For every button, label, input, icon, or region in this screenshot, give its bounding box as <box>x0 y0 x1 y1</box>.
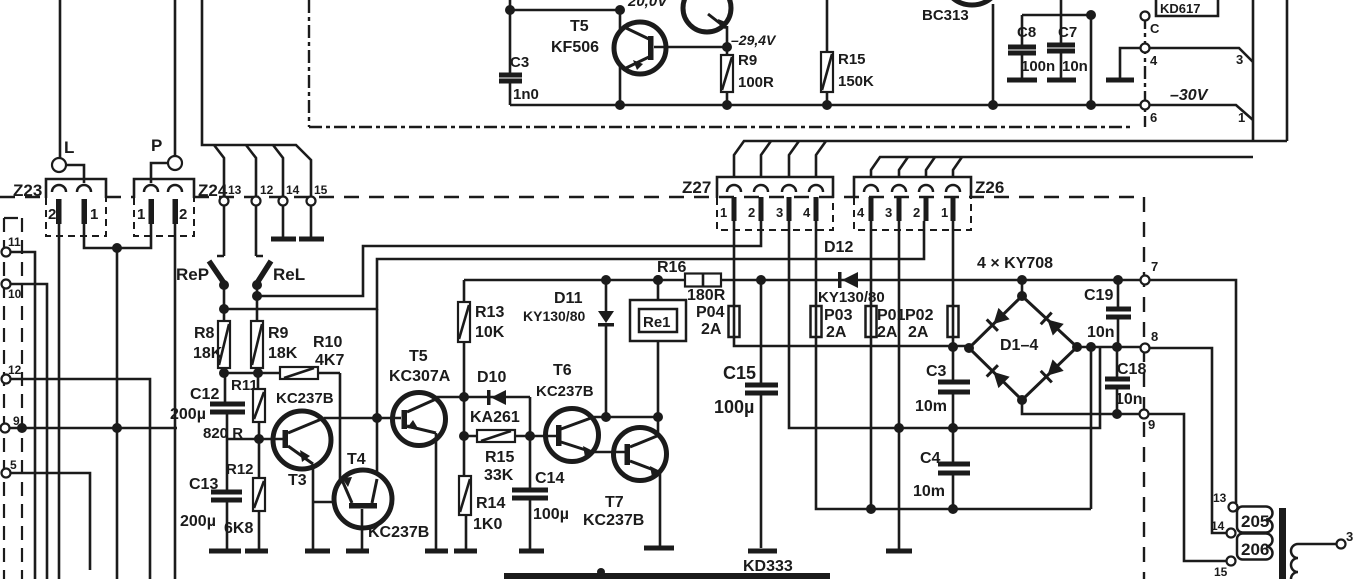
svg-text:4K7: 4K7 <box>315 352 344 369</box>
svg-text:T6: T6 <box>553 362 572 379</box>
svg-text:3: 3 <box>885 205 892 220</box>
svg-text:C18: C18 <box>1117 361 1146 378</box>
svg-text:20,0V: 20,0V <box>627 0 669 10</box>
svg-text:C14: C14 <box>535 470 564 487</box>
svg-text:KD617: KD617 <box>1160 1 1200 16</box>
svg-text:18K: 18K <box>193 345 223 362</box>
svg-text:P: P <box>151 136 162 155</box>
svg-text:D10: D10 <box>477 369 506 386</box>
svg-text:R13: R13 <box>475 304 504 321</box>
svg-text:2: 2 <box>179 206 187 223</box>
svg-text:KC307A: KC307A <box>389 368 451 385</box>
svg-text:1: 1 <box>941 205 948 220</box>
svg-text:150K: 150K <box>838 73 874 90</box>
svg-text:3: 3 <box>1346 529 1353 544</box>
svg-text:D12: D12 <box>824 239 853 256</box>
svg-text:–30V: –30V <box>1170 87 1209 104</box>
svg-text:4 × KY708: 4 × KY708 <box>977 255 1053 272</box>
svg-text:D11: D11 <box>554 290 583 307</box>
svg-text:R8: R8 <box>194 325 215 342</box>
svg-text:180R: 180R <box>687 287 726 304</box>
svg-text:4: 4 <box>857 205 865 220</box>
svg-text:14: 14 <box>1211 519 1225 533</box>
svg-text:D1–4: D1–4 <box>1000 337 1038 354</box>
svg-text:C7: C7 <box>1058 24 1077 41</box>
svg-text:11: 11 <box>8 235 21 249</box>
svg-text:KC237B: KC237B <box>536 383 594 400</box>
svg-text:–29,4V: –29,4V <box>731 32 777 48</box>
svg-text:C4: C4 <box>920 450 941 467</box>
svg-text:206: 206 <box>1241 540 1269 559</box>
svg-text:Z27: Z27 <box>682 178 711 197</box>
svg-text:R9: R9 <box>738 52 757 69</box>
svg-text:C13: C13 <box>189 476 218 493</box>
svg-text:L: L <box>64 138 74 157</box>
svg-text:KA261: KA261 <box>470 409 520 426</box>
svg-text:18K: 18K <box>268 345 298 362</box>
svg-text:200µ: 200µ <box>180 513 216 530</box>
svg-text:KC237B: KC237B <box>583 512 644 529</box>
svg-text:10n: 10n <box>1115 391 1143 408</box>
svg-text:T5: T5 <box>570 18 589 35</box>
svg-text:2: 2 <box>748 205 755 220</box>
svg-text:KC237B: KC237B <box>368 524 429 541</box>
svg-text:205: 205 <box>1241 512 1269 531</box>
svg-text:C3: C3 <box>926 363 947 380</box>
svg-text:6K8: 6K8 <box>224 520 253 537</box>
svg-text:10m: 10m <box>915 398 947 415</box>
svg-text:C15: C15 <box>723 363 756 383</box>
svg-text:100µ: 100µ <box>714 397 754 417</box>
svg-text:4: 4 <box>1150 53 1158 68</box>
svg-text:15: 15 <box>314 183 328 197</box>
svg-text:C: C <box>1150 21 1160 36</box>
svg-text:200µ: 200µ <box>170 406 206 423</box>
svg-text:1: 1 <box>90 206 98 223</box>
svg-text:T5: T5 <box>409 348 428 365</box>
svg-text:R12: R12 <box>226 461 254 478</box>
svg-text:6: 6 <box>1150 110 1157 125</box>
svg-text:100n: 100n <box>1021 58 1055 75</box>
svg-text:1: 1 <box>1238 110 1245 125</box>
svg-text:Z26: Z26 <box>975 178 1004 197</box>
svg-text:8: 8 <box>1151 329 1158 344</box>
svg-text:5: 5 <box>10 458 17 472</box>
svg-text:12: 12 <box>260 183 274 197</box>
svg-text:2A: 2A <box>701 321 722 338</box>
svg-text:KY130/80: KY130/80 <box>818 289 885 306</box>
svg-text:10n: 10n <box>1062 58 1088 75</box>
svg-text:R14: R14 <box>476 495 505 512</box>
svg-text:C3: C3 <box>510 54 529 71</box>
svg-text:R11: R11 <box>231 377 258 394</box>
svg-text:ReP: ReP <box>176 265 209 284</box>
svg-text:1: 1 <box>137 206 145 223</box>
svg-text:T4: T4 <box>347 451 366 468</box>
svg-text:P01: P01 <box>877 307 906 324</box>
svg-text:KY130/80: KY130/80 <box>523 308 585 324</box>
svg-text:1K0: 1K0 <box>473 516 502 533</box>
svg-text:BC313: BC313 <box>922 7 969 24</box>
svg-text:R9: R9 <box>268 325 289 342</box>
svg-text:4: 4 <box>803 205 811 220</box>
svg-text:KF506: KF506 <box>551 39 599 56</box>
svg-text:15: 15 <box>1214 565 1228 579</box>
svg-text:12: 12 <box>8 363 22 377</box>
svg-text:C19: C19 <box>1084 287 1113 304</box>
svg-text:T3: T3 <box>288 472 307 489</box>
svg-text:Re1: Re1 <box>643 314 671 331</box>
svg-text:P02: P02 <box>905 307 934 324</box>
svg-text:KC237B: KC237B <box>276 390 334 407</box>
svg-text:P04: P04 <box>696 304 725 321</box>
svg-text:R10: R10 <box>313 334 342 351</box>
svg-text:13: 13 <box>1213 491 1227 505</box>
svg-text:9: 9 <box>1148 417 1155 432</box>
svg-text:1: 1 <box>720 205 727 220</box>
svg-text:KD333: KD333 <box>743 558 793 575</box>
svg-text:R16: R16 <box>657 259 686 276</box>
svg-text:10: 10 <box>8 287 22 301</box>
svg-text:2: 2 <box>48 206 56 223</box>
svg-text:7: 7 <box>1151 259 1158 274</box>
svg-text:2: 2 <box>913 205 920 220</box>
svg-text:R15: R15 <box>485 449 514 466</box>
svg-text:10K: 10K <box>475 324 505 341</box>
svg-text:100R: 100R <box>738 74 774 91</box>
svg-text:10m: 10m <box>913 483 945 500</box>
svg-text:1n0: 1n0 <box>513 86 539 103</box>
svg-text:3: 3 <box>776 205 783 220</box>
svg-text:C8: C8 <box>1017 24 1036 41</box>
svg-text:2A: 2A <box>877 324 898 341</box>
svg-text:R15: R15 <box>838 51 866 68</box>
svg-text:T7: T7 <box>605 494 624 511</box>
svg-text:3: 3 <box>1236 52 1243 67</box>
svg-text:10n: 10n <box>1087 324 1115 341</box>
svg-text:2A: 2A <box>826 324 847 341</box>
svg-text:100µ: 100µ <box>533 506 569 523</box>
svg-text:P03: P03 <box>824 307 853 324</box>
svg-text:ReL: ReL <box>273 265 305 284</box>
svg-text:33K: 33K <box>484 467 514 484</box>
svg-text:C12: C12 <box>190 386 219 403</box>
svg-text:9: 9 <box>13 414 20 428</box>
svg-text:14: 14 <box>286 183 300 197</box>
svg-text:13: 13 <box>228 183 242 197</box>
svg-text:Z23: Z23 <box>13 181 42 200</box>
svg-text:2A: 2A <box>908 324 929 341</box>
